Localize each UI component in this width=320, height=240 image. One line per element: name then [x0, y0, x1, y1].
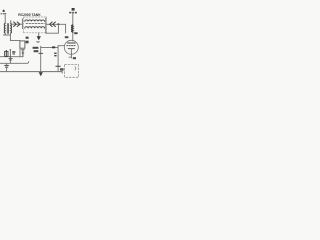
tube V1 cathode [68, 48, 74, 50]
arrow tuning chevrons pointing left [50, 22, 56, 27]
label cathode resistor value [73, 57, 76, 59]
label R3 value upper [33, 47, 39, 49]
label trimmer value [12, 51, 15, 54]
tube V1 plate [68, 42, 76, 44]
label R2 value upper [26, 37, 29, 39]
shield can dashed box around tank transformer [24, 17, 47, 33]
battery B1 inner mark [74, 67, 77, 70]
wire lower return line [0, 62, 29, 64]
wire cathode lead [70, 49, 72, 58]
wire secondary top to tank input [11, 21, 23, 25]
resistor R2 grid leak box [20, 41, 25, 48]
capacitor C5 plates on vertical [56, 65, 60, 67]
node junction dot [57, 23, 59, 25]
transformer T2 tank primary winding [25, 20, 45, 22]
label R3 value lower [34, 50, 39, 52]
resistor R1 plate load blob [72, 8, 75, 11]
wire AVC vertical [40, 46, 42, 72]
wire tank right side [45, 18, 47, 33]
wire antenna lead down [4, 15, 6, 23]
capacitor plate tick on AVC vertical [39, 52, 43, 54]
label choke value [74, 32, 77, 34]
arrow tuning chevrons pointing right [14, 22, 20, 27]
tube V1 envelope [64, 40, 78, 54]
wire AVC bus left [0, 56, 23, 58]
battery B1 dashed box [65, 65, 79, 78]
node junction top dot [10, 49, 12, 51]
wire R2 bottom lead [19, 48, 21, 57]
wire cathode tick [69, 56, 71, 58]
capacitor C3 bypass plates [5, 65, 9, 67]
capacitor C1 trimmer body [5, 51, 8, 56]
node ANT terminal label [1, 10, 7, 15]
wire primary bottom return [3, 33, 10, 35]
arrow AVC down [39, 72, 43, 76]
capacitor C2 top plate [22, 50, 25, 57]
inductor L1 plate choke [72, 25, 73, 32]
wire plate lead [72, 14, 74, 41]
wire grid return [41, 46, 58, 72]
ground chassis marks [9, 59, 13, 60]
label R2 value lower [26, 41, 29, 44]
svg-text:RC2000 TANK: RC2000 TANK [18, 13, 41, 17]
wire junction drop to tank bottom [46, 24, 59, 33]
transformer T1 core [7, 24, 8, 34]
wire ground bus bottom [0, 72, 62, 73]
wire C3 leads [6, 63, 8, 71]
wire grid lead [58, 45, 64, 47]
capacitor C4 blob on grid return [52, 46, 55, 48]
transformer T2 core dashes [26, 22, 44, 24]
wire tank left side [21, 19, 23, 29]
transformer T2 tank secondary winding [25, 27, 45, 29]
wire coupling branch down [65, 24, 67, 33]
label grid cap value [65, 36, 69, 38]
wire junction vertical [9, 50, 11, 64]
label plate supply value [69, 12, 77, 14]
label bypass cap marks [54, 53, 56, 57]
tube V1 grid [67, 45, 77, 47]
transformer T1 antenna coil secondary winding [10, 23, 13, 33]
wire secondary bottom lead down to grid line [10, 33, 20, 40]
node junction on AVC bus [10, 56, 12, 58]
label C5 value [60, 68, 64, 71]
ground shield arrow down [38, 33, 40, 37]
wire tank output [46, 23, 66, 25]
transformer T1 antenna coil primary winding [3, 23, 6, 33]
